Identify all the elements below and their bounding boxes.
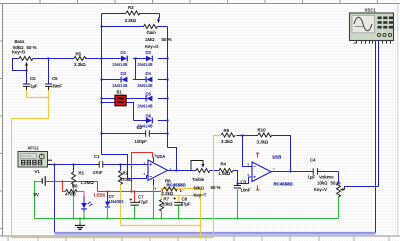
svg-text:3.3kΩ: 3.3kΩ bbox=[221, 139, 233, 144]
svg-text:D1: D1 bbox=[121, 50, 127, 55]
wire LED1 cathode to rail bbox=[83, 212, 85, 219]
wiper arrow Treble bbox=[202, 164, 205, 168]
svg-text:R10: R10 bbox=[258, 128, 267, 133]
svg-text:470Ω: 470Ω bbox=[65, 191, 76, 196]
wiper arrow Gain bbox=[157, 20, 160, 24]
wire R2 bottom to bias bbox=[120, 185, 122, 226]
svg-text:R9: R9 bbox=[224, 128, 230, 133]
svg-text:1N4148: 1N4148 bbox=[137, 103, 153, 108]
green junction dots bbox=[73, 218, 239, 220]
svg-text:47µF: 47µF bbox=[181, 202, 191, 207]
diode D2 bbox=[146, 56, 152, 62]
svg-text:47µF: 47µF bbox=[138, 199, 148, 204]
svg-text:1MΩ: 1MΩ bbox=[145, 37, 154, 42]
svg-text:D5: D5 bbox=[146, 91, 152, 96]
potentiometer Treble (zigzag + loop + wiper arrow) bbox=[196, 169, 210, 173]
wire R8 right lead jog bbox=[177, 189, 182, 192]
wire U1B output row bbox=[271, 171, 313, 173]
capacitor C3 plates bbox=[234, 184, 241, 189]
svg-text:XSC1: XSC1 bbox=[365, 8, 377, 13]
C8 plus mark bbox=[173, 197, 176, 200]
capacitor C2 plates bbox=[146, 130, 150, 136]
instrument XSC1 oscilloscope bbox=[350, 13, 394, 45]
diode LED1 bbox=[81, 197, 93, 209]
svg-text:C3: C3 bbox=[241, 179, 247, 184]
sheet right border bbox=[397, 4, 399, 237]
svg-text:Gain: Gain bbox=[147, 30, 157, 35]
svg-text:50kΩ: 50kΩ bbox=[194, 185, 204, 190]
wiper arrow Bass bbox=[25, 62, 28, 66]
wire LED1 bottom lead bbox=[83, 209, 85, 212]
op-amp U1A bbox=[148, 160, 168, 181]
svg-text:9V: 9V bbox=[34, 192, 39, 197]
wire U1A pin8 supply branch bbox=[132, 153, 153, 192]
diode D4 bbox=[146, 77, 152, 83]
svg-text:Key=T: Key=T bbox=[194, 192, 207, 197]
yellow junction dots bbox=[48, 97, 202, 239]
wire bottom run to scope bbox=[55, 232, 376, 235]
instrument XFG1 function generator bbox=[18, 152, 52, 168]
wire battery plus lead bbox=[46, 181, 98, 183]
left ruler ticks bbox=[0, 41, 3, 229]
diode D1 bbox=[121, 56, 127, 62]
svg-text:Key=B: Key=B bbox=[12, 50, 25, 55]
svg-text:R3: R3 bbox=[128, 5, 134, 10]
resistor R5 3.3k bbox=[74, 57, 86, 61]
resistor R10 3.3k bbox=[258, 133, 272, 137]
pin numbers U1A bbox=[144, 153, 172, 190]
wire bass/R5/diode row y58.5 bbox=[33, 58, 74, 60]
wire bias run y225 bbox=[121, 225, 201, 227]
U1B pin8 unconnected marker bbox=[256, 153, 259, 158]
svg-text:D6: D6 bbox=[146, 113, 152, 118]
svg-text:1N4148: 1N4148 bbox=[137, 62, 153, 67]
wire bias branch y188.5 bbox=[162, 189, 201, 196]
capacitor C5 plates bbox=[23, 84, 30, 90]
wire scope second vertical x378.5 bbox=[378, 44, 380, 187]
svg-text:R6: R6 bbox=[72, 183, 78, 188]
svg-text:1N4001: 1N4001 bbox=[109, 199, 125, 204]
resistor R9 3.3k bbox=[221, 133, 235, 137]
wire bias bottom run y237.5 bbox=[12, 237, 214, 239]
wire volume wiper to scope bbox=[345, 187, 379, 190]
potentiometer Bass (zigzag + wiper) bbox=[19, 57, 33, 61]
wire bass pot left loop bbox=[13, 59, 27, 71]
svg-text:50 %: 50 % bbox=[211, 185, 221, 190]
wire D5 row y98.5 bbox=[127, 98, 147, 100]
svg-text:Key=G: Key=G bbox=[145, 44, 159, 49]
wire gain row y26 bbox=[102, 26, 144, 28]
pin numbers U1B bbox=[248, 163, 276, 178]
wire red rail y191 bbox=[98, 191, 163, 193]
wire C8 minus to rail bbox=[178, 206, 180, 219]
capacitor C6 plates bbox=[45, 84, 52, 90]
wire R10 right to output bbox=[272, 136, 291, 172]
wire bass wiper down to C5 bbox=[26, 71, 28, 84]
wire node A main vertical x101 bbox=[101, 14, 103, 155]
svg-text:Bass: Bass bbox=[15, 39, 26, 44]
svg-text:1µF: 1µF bbox=[30, 83, 38, 88]
wire bass caps bus y97.5 bbox=[27, 97, 49, 99]
wire feedback to output jog bbox=[168, 148, 177, 171]
resistor R2 470k vertical bbox=[119, 171, 123, 185]
bottom ruler ticks bbox=[8, 236, 389, 241]
svg-text:C4: C4 bbox=[310, 157, 316, 162]
svg-text:Key=V: Key=V bbox=[314, 187, 327, 192]
U1B pin4 unconnected marker bbox=[256, 186, 259, 191]
diode D5 bbox=[146, 96, 152, 102]
svg-text:D4: D4 bbox=[146, 71, 152, 76]
svg-text:47nF: 47nF bbox=[93, 170, 103, 175]
wire ground symbol stub bbox=[79, 219, 81, 224]
wire C6 branch vertical x48 bbox=[48, 59, 50, 84]
svg-text:1N4148: 1N4148 bbox=[112, 83, 128, 88]
svg-text:R4: R4 bbox=[221, 161, 227, 166]
svg-text:1N4148: 1N4148 bbox=[137, 83, 153, 88]
svg-text:D2: D2 bbox=[146, 50, 152, 55]
svg-text:1.5kΩ: 1.5kΩ bbox=[219, 171, 231, 176]
wire XFG output row y165 bbox=[52, 164, 99, 166]
svg-text:Treble: Treble bbox=[192, 177, 205, 182]
svg-text:D3: D3 bbox=[121, 71, 127, 76]
wire C4 to volume pot bbox=[338, 172, 340, 184]
svg-text:3.3kΩ: 3.3kΩ bbox=[257, 140, 269, 145]
diode D3 bbox=[121, 77, 127, 83]
svg-text:3.3kΩ: 3.3kΩ bbox=[125, 18, 137, 23]
svg-text:RC4558D: RC4558D bbox=[167, 182, 186, 187]
wiper arrow Volume bbox=[340, 188, 343, 191]
resistor R7 10k vertical bbox=[160, 200, 164, 212]
wire magenta LED feed bbox=[77, 192, 85, 197]
potentiometer Volume vertical (zigzag) bbox=[337, 183, 341, 197]
wire C2 row y133 bbox=[102, 133, 146, 135]
wire U1A power stubs bbox=[153, 157, 155, 162]
wire R7 top lead bbox=[161, 196, 163, 200]
svg-text:B1: B1 bbox=[117, 89, 123, 94]
wire R3 feedback row y13 bbox=[102, 13, 127, 15]
svg-text:10nF: 10nF bbox=[241, 187, 251, 192]
wire R2 tap down bbox=[120, 165, 122, 171]
wire B1 lower stub left bbox=[102, 102, 115, 104]
wire gain pot wiper drop bbox=[159, 14, 160, 20]
ground symbol bbox=[75, 224, 85, 230]
wire R9-R10 node row bbox=[237, 135, 259, 137]
wire bias drop x48 to jog bbox=[12, 98, 49, 119]
wire D6 row y120.5 bbox=[134, 120, 147, 122]
wire bias riser x213 to R9 bbox=[214, 136, 222, 238]
wire U1A pin4 to rail bbox=[153, 185, 155, 219]
wire bias riser x200.5 bbox=[200, 189, 202, 238]
capacitor C8 electrolytic plates bbox=[174, 202, 182, 205]
wire scope channel vertical x376 bbox=[375, 44, 377, 233]
wire C7 plus lead bbox=[134, 192, 136, 203]
svg-text:C5: C5 bbox=[30, 76, 36, 81]
C7 plus mark bbox=[130, 198, 133, 201]
wire C8 top lead bbox=[178, 196, 180, 202]
svg-text:R2: R2 bbox=[123, 171, 129, 176]
wire bias left vertical x11.5 bbox=[11, 119, 13, 238]
svg-text:C6: C6 bbox=[52, 76, 58, 81]
sheet left border bbox=[2, 4, 4, 237]
wire D7 cathode to rail bbox=[107, 208, 109, 219]
wire C6 bottom lead bbox=[48, 90, 50, 98]
capacitor C1 plates bbox=[96, 161, 103, 167]
blue junction dots bbox=[26, 26, 292, 185]
wire B1 upper stub left bbox=[102, 98, 115, 100]
scope terminals bbox=[354, 41, 391, 44]
svg-text:Volume: Volume bbox=[319, 174, 334, 179]
diode D7 bbox=[105, 202, 110, 208]
svg-text:3.3kΩ: 3.3kΩ bbox=[74, 62, 86, 67]
wire R8 left lead jog bbox=[163, 189, 164, 192]
svg-text:XFG1: XFG1 bbox=[28, 145, 40, 150]
svg-text:R1: R1 bbox=[79, 170, 85, 175]
svg-text:1µF: 1µF bbox=[308, 174, 316, 179]
diode D6 bbox=[146, 118, 152, 124]
wire right feedback vertical x169 bbox=[167, 27, 169, 148]
wire C3 bottom to rail bbox=[237, 190, 239, 219]
capacitor C7 electrolytic plates bbox=[130, 202, 138, 205]
resistor R1 1.2M vertical bbox=[72, 172, 76, 184]
red junction dots bbox=[62, 181, 136, 193]
wire R4 to U1B plus input bbox=[233, 171, 252, 184]
svg-text:C8: C8 bbox=[182, 196, 188, 201]
sheet top border bbox=[0, 3, 400, 5]
svg-text:R5: R5 bbox=[76, 52, 82, 57]
wire diode matrix mid vertical x135 bbox=[135, 59, 137, 80]
wire U1B minus feedback vertical bbox=[243, 136, 253, 167]
wire D7 anode lead bbox=[107, 192, 109, 202]
wire XFG drop x54 bbox=[54, 165, 56, 233]
wire R6 branch drop x62 bbox=[63, 182, 66, 192]
sheet bottom border bbox=[0, 235, 400, 237]
wire R1 tap down bbox=[73, 165, 75, 173]
wire R1 bottom to rail bbox=[73, 184, 75, 218]
component B1 red DIP bbox=[115, 95, 126, 106]
svg-text:V1: V1 bbox=[35, 169, 41, 174]
svg-text:R7: R7 bbox=[164, 196, 170, 201]
wire volume pot bottom to rail bbox=[338, 197, 340, 219]
wire diode row y79 bbox=[102, 79, 122, 81]
svg-text:LED1: LED1 bbox=[94, 192, 106, 197]
svg-text:39nF: 39nF bbox=[52, 83, 62, 88]
wire red drop to rail x97.5 bbox=[97, 182, 99, 192]
wire C7 minus to rail bbox=[134, 206, 136, 219]
resistor R3 3.3k bbox=[126, 11, 140, 15]
op-amp U1B bbox=[252, 162, 271, 182]
wire U1A output row bbox=[168, 170, 197, 172]
wire B1 lower to D6 row bbox=[127, 103, 134, 121]
capacitor C4 plates bbox=[313, 168, 317, 175]
top ruler ticks bbox=[40, 0, 378, 4]
svg-text:1N4148: 1N4148 bbox=[112, 62, 128, 67]
svg-text:U1A: U1A bbox=[157, 154, 167, 159]
svg-text:RC4558D: RC4558D bbox=[274, 182, 293, 187]
svg-text:1.2MΩ: 1.2MΩ bbox=[81, 180, 94, 185]
svg-text:1N4148: 1N4148 bbox=[137, 124, 153, 129]
svg-text:U1B: U1B bbox=[273, 155, 282, 160]
svg-text:C1: C1 bbox=[94, 154, 100, 159]
resistor R4 1.5k bbox=[219, 169, 233, 173]
svg-text:50 %: 50 % bbox=[331, 180, 341, 185]
svg-text:10kΩ: 10kΩ bbox=[162, 202, 172, 207]
svg-text:100pF: 100pF bbox=[135, 139, 148, 144]
potentiometer Gain (zigzag + wiper) bbox=[144, 25, 158, 29]
wire node A to inverting input bbox=[102, 155, 149, 179]
resistor R8 2.2k horizontal bbox=[164, 187, 178, 191]
battery V1 plates bbox=[42, 176, 45, 185]
svg-text:50 %: 50 % bbox=[27, 45, 37, 50]
wire battery minus lead bbox=[35, 182, 43, 219]
svg-text:470kΩ: 470kΩ bbox=[120, 177, 133, 182]
svg-text:50 %: 50 % bbox=[162, 37, 172, 42]
wire R7 bottom to rail bbox=[161, 212, 163, 219]
wire C5 bottom lead bbox=[26, 90, 28, 98]
resistor R6 470 horizontal bbox=[66, 190, 78, 194]
wire bias branch y195 bbox=[162, 195, 201, 197]
svg-text:10kΩ: 10kΩ bbox=[317, 180, 327, 185]
wire ground rail y218 bbox=[35, 218, 339, 220]
